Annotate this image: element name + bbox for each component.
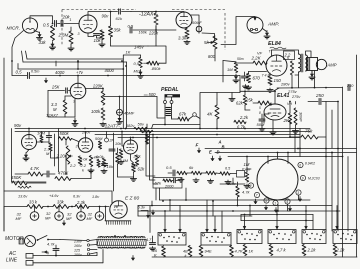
wire [289,101,291,113]
wire [0,0,1,1]
wire [274,90,276,104]
label 50M [257,122,265,127]
wire [30,75,240,77]
label EZ80 [125,196,139,202]
svg-text:62k: 62k [138,167,146,172]
wire [12,31,24,76]
resistor 220K pot [66,146,72,164]
label 4.7 [146,238,152,242]
label 61k [116,16,123,21]
wire [28,129,30,135]
wire EL84 screen down [291,75,293,89]
svg-text:1.8v: 1.8v [92,195,100,199]
resistor 33k [53,205,69,209]
terminal D [217,150,220,155]
wire cap to pot [199,32,215,40]
dashed box 12AX7 top-left [62,9,136,11]
label 94K [205,249,212,254]
tube V2 12AX7a [79,15,97,33]
svg-text:MICR.: MICR. [7,26,21,32]
resistor in bus [134,127,147,129]
label 450K [11,175,22,180]
label 14.6v [49,194,59,198]
resistor 2.2k cathode [89,156,92,167]
wire [137,206,139,217]
wire [249,205,251,216]
svg-text:67k: 67k [179,112,187,117]
bus wire [241,220,313,222]
wire V6 plate to bus [85,132,87,139]
wire [43,206,53,208]
svg-text:0.5m: 0.5m [31,70,39,74]
wire [322,102,338,149]
label 2.3M [58,33,69,38]
svg-text:500k: 500k [60,131,70,136]
svg-text:4000: 4000 [105,68,115,73]
label 0.5 [43,23,50,28]
label 35k [114,28,122,33]
label 10k [107,164,114,169]
svg-text:100k: 100k [91,109,101,114]
pin 1 [273,200,278,205]
ground [150,247,156,251]
svg-text:2.6M: 2.6M [119,159,129,163]
label 1K [249,250,254,254]
capacitor 4.7 [150,243,156,245]
wire [264,205,267,210]
wire [237,182,239,206]
resistor 500k [59,137,72,141]
label 4.7Kb [235,249,244,254]
tap terminal 100 [74,253,97,258]
svg-text:160v: 160v [74,244,82,248]
capacitor [109,149,115,151]
wire [336,206,338,212]
svg-text:MF: MF [66,216,72,221]
wire [246,156,248,166]
wire AC [33,253,97,256]
wire [155,188,157,200]
bus wire [18,64,123,70]
label 1M [244,162,250,167]
bus wire [95,134,300,136]
wire EZ80 plates [105,206,107,221]
resistor 450K [12,181,27,185]
svg-text:67k: 67k [155,181,162,186]
wire [212,200,214,216]
wire [55,253,57,256]
pedal jack bar [165,94,181,97]
tap terminal 230 [73,239,97,243]
label 75k [305,129,313,134]
svg-text:F: F [196,143,199,148]
label 42k [131,163,139,168]
pin 8 [259,111,261,115]
wire [30,16,53,24]
svg-text:B: B [222,145,225,150]
wire [160,181,181,201]
svg-text:4.7: 4.7 [146,238,152,242]
label 5k [204,40,210,45]
resistor 2.2k [234,120,246,123]
label 13.6v [18,195,28,199]
wire [216,93,218,100]
resistor [206,171,216,174]
ground [100,122,106,126]
wire [172,118,179,120]
label 275v [287,89,298,94]
wire riser [149,131,155,180]
wire column [122,55,124,129]
capacitor screen [290,61,293,75]
wire [288,206,291,211]
wire V5 plate to bus [0,0,1,1]
label EL41 [277,93,290,99]
terminal [193,113,197,117]
label 6k [189,165,194,170]
svg-text:E Z 80: E Z 80 [125,196,139,202]
capacitor [173,170,175,176]
svg-text:280v: 280v [280,82,291,87]
ground [243,85,249,89]
wire [295,72,299,75]
wire [262,114,273,131]
capacitor coupling [130,27,132,33]
wire [0,0,1,1]
wire EL41 grid [245,105,250,110]
ground [138,70,144,79]
label MO [134,69,140,74]
wire plate [77,75,79,84]
terminal F [196,143,199,148]
resistor 94K [199,246,203,257]
svg-text:+4.6v: +4.6v [49,194,59,198]
label EL84 [268,41,281,47]
wire riser [325,102,327,149]
svg-text:MO: MO [134,69,140,74]
label 90v [102,14,110,19]
wire [151,210,154,215]
ground [178,178,184,182]
resistor [177,171,187,174]
svg-text:4,7K: 4,7K [235,249,244,254]
wire [306,51,312,58]
label 62k [138,167,146,172]
svg-text:670: 670 [253,76,261,81]
label 32MF [66,212,72,222]
capacitor [47,171,49,177]
wire column [126,62,128,129]
wire [244,72,246,81]
wire [69,90,71,92]
resistor 2.2k [75,205,89,209]
ground [263,29,271,39]
potentiometer 0.5M [139,58,142,68]
resistor 42k [135,155,138,165]
resistor 470K [55,177,71,181]
svg-text:4.7K: 4.7K [30,166,40,171]
resistor 67k [163,179,172,182]
potentiometer 5k [208,36,217,49]
wire [64,23,79,25]
transformer OT primary [299,54,301,72]
svg-text:60MF: 60MF [192,21,202,25]
svg-text:6: 6 [299,164,301,168]
label 67k [179,112,187,117]
wire left frame [113,133,115,191]
label 33k [57,200,65,205]
ground [88,169,94,173]
bus wire [138,210,340,212]
capacitor grid V7 [66,88,68,93]
bus wire [241,214,313,216]
bus 12AT7 line2 [15,131,310,133]
svg-text:2: 2 [249,184,252,188]
wire [15,173,55,175]
svg-text:4.7k: 4.7k [242,190,251,195]
svg-text:5: 5 [265,199,267,203]
label 0.5c [128,24,134,29]
wire [218,156,221,161]
svg-text:+7v: +7v [76,70,84,75]
bus wire [118,137,300,139]
svg-text:AC: AC [8,251,16,257]
wire V6 grid [65,141,67,175]
resistor 5M [98,141,101,149]
wire [290,121,326,137]
label 0.5m [31,70,39,74]
resistor [188,246,192,257]
wire cathode [88,33,94,37]
wire right frame vertical [356,55,358,257]
socket S3 [237,230,262,244]
svg-text:7: 7 [256,194,258,198]
label 3.3k [178,36,187,41]
resistor 1K [243,245,247,256]
svg-text:M.2C03: M.2C03 [308,177,320,181]
svg-text:4B: 4B [183,250,188,254]
tube V8 EL41 [264,104,286,120]
svg-text:1K: 1K [249,250,254,254]
socket base EZ80 [105,221,131,225]
label 1K [126,50,131,55]
wire [69,206,75,208]
svg-text:2000: 2000 [164,184,174,188]
wire [305,211,313,230]
svg-text:94E: 94E [205,249,212,254]
wire riser [331,110,333,148]
tube V7 12AX7 [70,83,86,99]
label 2.2k [239,115,249,120]
wire [141,211,149,219]
svg-text:100v: 100v [74,253,82,257]
wire [189,116,200,119]
box top [123,54,140,56]
resistor 2.2K [333,245,337,256]
ground [37,32,43,40]
wire [140,55,142,58]
wire [4,206,27,208]
svg-text:3: 3 [76,145,78,149]
wire [70,27,72,47]
label 100k [141,129,151,134]
label 4M [94,156,100,160]
resistor 100k [145,134,148,144]
wire [305,206,307,212]
svg-text:470K: 470K [58,171,69,176]
wire [133,26,157,31]
dashed box 12AX7 top-right [172,9,225,11]
wire [253,103,271,106]
ground [229,97,235,101]
svg-text:EL84: EL84 [268,41,281,47]
label 500 [144,92,156,97]
wire pedal bottom [152,124,201,129]
resistor 4.7K [28,172,43,176]
transformer T1 secondary [98,237,145,238]
resistor 6k [119,149,122,158]
resistor 3.3M [63,100,67,114]
label +7v [76,70,84,75]
jack J1 microphone [22,18,37,33]
wire riser [152,134,158,184]
svg-text:12AX7: 12AX7 [46,113,59,118]
label 25k [245,98,254,103]
pin 7 [254,192,259,197]
wire [122,11,132,13]
capacitor 30MF [294,108,297,125]
svg-text:1K: 1K [126,50,131,55]
label 200v [81,131,91,135]
resistor 4K [215,105,219,119]
bus wire [160,199,311,201]
tube power can [257,159,298,200]
ground [101,169,107,173]
plug pin [26,261,33,266]
label 33k [39,40,47,45]
resistor 3.3k [185,29,189,39]
wire [41,132,43,143]
svg-text:5: 5 [259,106,261,110]
label AMP [267,22,279,28]
resistor 850k [144,61,160,65]
tap terminal 125 [74,248,97,252]
wire plate to cap [191,15,199,26]
label 48K [183,250,188,259]
wire [65,96,71,117]
svg-text:4K: 4K [207,112,214,117]
capacitor 2000 [174,178,176,182]
svg-text:800: 800 [208,54,216,59]
resistor 2.3M [49,143,52,151]
label MOTOR [5,236,24,242]
label VH [287,102,292,106]
svg-text:1M: 1M [227,67,233,72]
label 32MF [87,212,93,222]
wire [0,0,1,1]
capacitor 0.5m [28,73,30,79]
resistor 450k2 [18,186,31,188]
ground [184,40,190,44]
socket S5 [302,230,326,244]
svg-text:10k: 10k [107,164,114,169]
svg-text:10k: 10k [94,38,102,43]
svg-text:M: M [53,107,57,112]
label 2.2K [251,56,262,61]
pin 9 [300,175,305,180]
wire [27,168,91,183]
wire box right [54,134,56,166]
label 4000 [55,70,65,75]
resistor 2K [288,113,291,124]
wire [216,99,218,129]
wire V3 to AMP jack [221,17,256,45]
svg-text:9: 9 [302,177,304,181]
ground [131,177,137,181]
wire [299,129,301,157]
wire [277,152,279,159]
pin 1 [70,18,72,22]
transformer OT core [301,54,303,72]
pin 3 [78,32,80,36]
wire [42,251,135,261]
capacitor cathode [242,76,248,78]
svg-text:2.3M: 2.3M [58,33,69,38]
svg-text:450K: 450K [11,175,22,180]
label 220k [148,31,159,36]
wire [152,236,154,243]
bus wire [215,152,357,154]
label 50m [237,57,244,61]
wire AC [33,250,103,263]
transformer OT secondary [306,55,308,71]
svg-text:62k: 62k [236,101,244,106]
label 50M [95,137,103,141]
resistor 1M [234,63,237,73]
ground [193,178,199,182]
wire [97,36,103,38]
label 100k [91,109,101,114]
ground [117,116,123,125]
label 10k [94,38,102,43]
wire [185,188,187,201]
capacitor 32MF [95,212,104,221]
wire V9 grid [121,131,124,146]
svg-text:2.2k: 2.2k [307,248,317,253]
transformer T1 primary [98,247,145,248]
wire [197,148,200,153]
capacitor plate line [119,9,121,14]
wire [254,199,257,204]
wire left frame vertical [3,58,5,231]
label 2K [283,118,290,123]
label 2000 [164,184,174,188]
svg-text:-850k: -850k [151,66,162,71]
label 33k [29,200,38,205]
wire [34,31,40,33]
tube V9 12AT7 [124,140,138,154]
svg-text:2.2K: 2.2K [251,56,262,61]
svg-text:D: D [217,150,220,155]
label 4.7k [47,242,56,247]
svg-text:125: 125 [74,249,80,253]
capacitor 32MF [30,212,39,221]
wire [211,156,214,161]
socket S1 [158,233,186,246]
wire [336,211,339,230]
tube V10 EZ80 [110,201,127,218]
wire riser [145,128,155,176]
